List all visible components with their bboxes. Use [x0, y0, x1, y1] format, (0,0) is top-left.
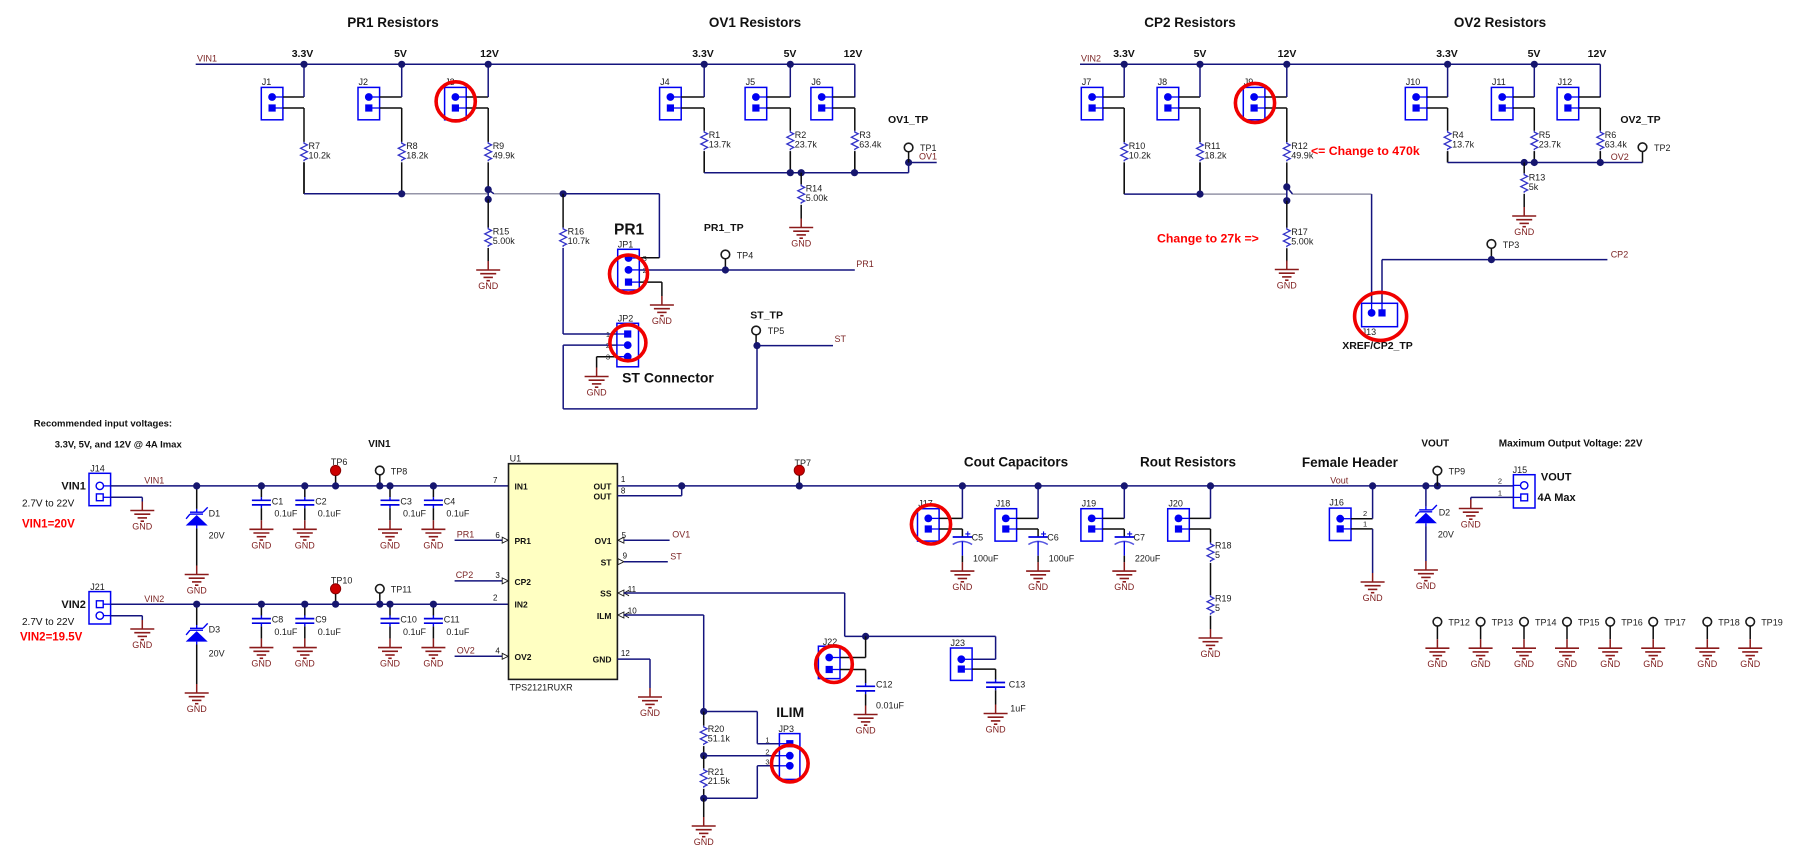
- wire C4 lower lead: [432, 508, 434, 520]
- wire C8 lead: [260, 604, 262, 615]
- svg-text:GND: GND: [856, 726, 877, 736]
- svg-text:IN2: IN2: [515, 599, 529, 609]
- junction TP4: [722, 266, 729, 273]
- testpoint TP2: [1638, 143, 1670, 153]
- ground under R15: [476, 261, 500, 291]
- wire PR1 stub: [455, 537, 509, 543]
- wire C9 lower lead: [304, 626, 306, 638]
- svg-text:3.3V: 3.3V: [692, 48, 714, 60]
- svg-text:R13: R13: [1529, 172, 1546, 182]
- ground under TP12: [1425, 639, 1449, 669]
- net label OV2 stub: [457, 646, 475, 656]
- svg-text:12V: 12V: [1588, 48, 1607, 60]
- wire C2 lower lead: [304, 508, 306, 520]
- note VIN2=19.5V: [20, 632, 83, 644]
- svg-text:1uF: 1uF: [1010, 704, 1026, 714]
- svg-text:ST: ST: [601, 557, 613, 567]
- svg-text:GND: GND: [1028, 582, 1049, 592]
- ground under D1: [185, 566, 209, 596]
- svg-text:OV1: OV1: [594, 536, 611, 546]
- svg-text:GND: GND: [1643, 659, 1664, 669]
- svg-text:GND: GND: [251, 659, 272, 669]
- svg-text:TP14: TP14: [1535, 618, 1557, 628]
- svg-text:Rout Resistors: Rout Resistors: [1140, 455, 1236, 470]
- svg-text:R2: R2: [795, 130, 807, 140]
- zener D1: [186, 507, 225, 540]
- wire ST net: [757, 345, 833, 347]
- svg-text:GND: GND: [251, 540, 272, 550]
- svg-text:OV1: OV1: [919, 152, 937, 162]
- node 5V tap label: [394, 48, 407, 60]
- ground under J16: [1361, 573, 1385, 603]
- svg-text:TP19: TP19: [1761, 618, 1783, 628]
- svg-text:GND: GND: [587, 388, 608, 398]
- resistor R19: [1207, 593, 1231, 629]
- svg-text:ILIM: ILIM: [776, 704, 804, 720]
- testpoint TP18: [1703, 618, 1740, 640]
- connector J6: [811, 77, 833, 120]
- svg-text:C11: C11: [444, 615, 460, 625]
- connector J17: [918, 499, 940, 541]
- svg-text:9: 9: [623, 552, 628, 561]
- label VIN1 range: [22, 499, 75, 510]
- svg-text:OV2: OV2: [457, 646, 475, 656]
- svg-text:TP2: TP2: [1654, 143, 1671, 153]
- resistor R6: [1597, 130, 1627, 150]
- resistor R17: [1283, 201, 1313, 262]
- svg-text:GND: GND: [640, 708, 661, 718]
- capacitor C11: [424, 615, 470, 637]
- svg-text:J12: J12: [1558, 77, 1573, 87]
- node 3.3V tap label: [1436, 48, 1458, 60]
- wire PR1 net: [639, 269, 855, 271]
- svg-text:PR1: PR1: [515, 536, 532, 546]
- pin numbers J15: [1498, 476, 1502, 497]
- svg-text:OUT: OUT: [594, 492, 613, 502]
- svg-text:GND: GND: [295, 659, 316, 669]
- wire C4 lead: [432, 486, 434, 497]
- connector J7: [1081, 77, 1103, 120]
- ground under C9: [293, 639, 317, 669]
- connector J14: [89, 464, 111, 506]
- svg-text:R10: R10: [1129, 141, 1146, 151]
- svg-text:J18: J18: [996, 499, 1011, 509]
- svg-text:J7: J7: [1082, 77, 1092, 87]
- svg-text:OV1: OV1: [672, 530, 690, 540]
- wire JP2 pin1 from R16: [563, 333, 617, 335]
- net label VIN2: [1081, 54, 1101, 64]
- ground under TP14: [1512, 639, 1536, 669]
- wire J7 stubs: [1103, 64, 1124, 142]
- wire C3 lower lead: [389, 508, 391, 520]
- svg-text:12V: 12V: [480, 48, 499, 60]
- svg-text:5.00k: 5.00k: [1291, 236, 1314, 246]
- svg-text:5V: 5V: [394, 48, 407, 60]
- svg-text:0.1uF: 0.1uF: [274, 509, 298, 519]
- wire OUT rail: [617, 485, 1513, 487]
- svg-text:OV2: OV2: [1611, 152, 1629, 162]
- svg-text:49.9k: 49.9k: [493, 150, 516, 160]
- svg-text:ST: ST: [835, 334, 847, 344]
- ground under C10: [378, 639, 402, 669]
- svg-text:+: +: [965, 530, 971, 541]
- svg-text:GND: GND: [1277, 281, 1298, 291]
- svg-text:D2: D2: [1439, 508, 1451, 518]
- svg-text:R18: R18: [1215, 541, 1232, 551]
- svg-text:0.01uF: 0.01uF: [876, 701, 905, 711]
- resistor R2: [787, 130, 817, 150]
- svg-text:GND: GND: [1471, 659, 1492, 669]
- connector J21: [89, 582, 111, 624]
- svg-text:C4: C4: [444, 496, 456, 506]
- connector J3: [445, 77, 467, 120]
- testpoint TP13: [1476, 618, 1513, 640]
- svg-text:TP8: TP8: [391, 467, 408, 477]
- svg-text:R5: R5: [1539, 130, 1551, 140]
- highlight circle J3: [436, 82, 475, 121]
- svg-text:12: 12: [621, 649, 630, 658]
- wire R12 bottom lead: [1286, 162, 1288, 187]
- wire D1 lower lead: [196, 528, 198, 565]
- wire C9 lead: [304, 604, 306, 615]
- capacitor C13: [986, 679, 1026, 713]
- connector J10: [1405, 77, 1427, 120]
- svg-text:5: 5: [1215, 603, 1220, 613]
- wire C6 lower lead: [1037, 556, 1039, 563]
- highlight circle JP3: [772, 745, 809, 782]
- svg-text:GND: GND: [380, 540, 401, 550]
- svg-text:GND: GND: [1697, 659, 1718, 669]
- svg-text:VIN2: VIN2: [61, 599, 85, 611]
- title OV1_TP: [888, 114, 928, 126]
- svg-text:Change to 27k =>: Change to 27k =>: [1157, 232, 1259, 246]
- wire D2 lower lead: [1425, 526, 1427, 561]
- connector J5: [745, 77, 767, 120]
- highlight circle J13: [1355, 292, 1407, 340]
- svg-text:R12: R12: [1291, 141, 1308, 151]
- testpoint TP1: [904, 143, 936, 163]
- wire ST pin9: [618, 559, 668, 565]
- title PR1_TP: [704, 222, 744, 234]
- wire JP2 pin2 net: [563, 345, 757, 409]
- svg-text:8: 8: [621, 487, 626, 496]
- wire CP2 resistor rail: [1124, 162, 1371, 303]
- svg-text:5.00k: 5.00k: [806, 193, 829, 203]
- wire J23 stubs: [972, 669, 996, 679]
- wire J16 stubs: [1351, 486, 1373, 573]
- wire J22 stubs: [840, 636, 866, 683]
- node 12V tap label: [1588, 48, 1607, 60]
- svg-text:C13: C13: [1009, 680, 1026, 690]
- wire R6 bottom lead: [1599, 151, 1601, 162]
- testpoint TP10: [331, 576, 353, 605]
- wire J12 stubs: [1579, 97, 1601, 131]
- wire C10 lower lead: [389, 626, 391, 638]
- svg-text:Cout Capacitors: Cout Capacitors: [964, 455, 1068, 470]
- svg-text:18.2k: 18.2k: [406, 150, 429, 160]
- wire C8 lower lead: [260, 626, 262, 638]
- svg-text:VIN2: VIN2: [1081, 54, 1101, 64]
- node 12V tap label: [844, 48, 863, 60]
- svg-text:GND: GND: [1114, 582, 1135, 592]
- svg-text:3: 3: [495, 571, 500, 580]
- capacitor C10: [381, 615, 427, 637]
- svg-text:5.00k: 5.00k: [493, 236, 516, 246]
- svg-text:12V: 12V: [844, 48, 863, 60]
- svg-text:TP9: TP9: [1449, 466, 1466, 476]
- svg-text:2: 2: [1363, 509, 1367, 518]
- wire JP3 pin2: [704, 755, 780, 757]
- svg-text:20V: 20V: [209, 531, 225, 541]
- resistor R7: [301, 141, 331, 161]
- wire C1 lower lead: [260, 508, 262, 520]
- svg-text:100uF: 100uF: [973, 554, 999, 564]
- net label CP2: [1611, 249, 1629, 259]
- wire C3 lead: [389, 486, 391, 497]
- svg-text:IN1: IN1: [515, 481, 529, 491]
- svg-text:GND: GND: [1600, 659, 1621, 669]
- section title OV1 Resistors: [709, 15, 801, 30]
- connector J1: [261, 77, 283, 120]
- connector J18: [995, 499, 1017, 541]
- svg-text:<= Change to 470k: <= Change to 470k: [1311, 144, 1420, 158]
- svg-text:TP18: TP18: [1718, 618, 1740, 628]
- wire R1 bottom lead: [703, 151, 705, 173]
- label VIN1 conn: [61, 481, 85, 493]
- note change to 470k: [1311, 144, 1420, 158]
- svg-text:10.2k: 10.2k: [309, 150, 332, 160]
- wire VIN1 rail: [111, 485, 509, 487]
- node 12V tap label: [480, 48, 499, 60]
- title OV2_TP: [1620, 114, 1660, 126]
- ground under C12: [854, 706, 878, 736]
- svg-text:63.4k: 63.4k: [1605, 139, 1628, 149]
- capacitor C6: [1028, 530, 1074, 564]
- wire J19 stubs: [1103, 486, 1125, 537]
- wire J11 stubs: [1513, 64, 1534, 131]
- capacitor C8: [252, 615, 298, 637]
- svg-text:D1: D1: [209, 509, 221, 519]
- wire OV1 pin5: [618, 537, 670, 543]
- ground under C13: [984, 705, 1008, 735]
- testpoint TP8: [376, 466, 408, 486]
- svg-text:TP17: TP17: [1664, 618, 1686, 628]
- svg-text:3.3V: 3.3V: [292, 48, 314, 60]
- highlight circle J22: [816, 646, 853, 683]
- resistor R12: [1283, 141, 1313, 161]
- svg-text:JP1: JP1: [618, 239, 634, 249]
- wire VIN1 top rail: [196, 64, 855, 97]
- svg-text:GND: GND: [1416, 581, 1437, 591]
- testpoint TP17: [1649, 618, 1686, 640]
- svg-text:U1: U1: [510, 454, 522, 464]
- svg-text:GND: GND: [132, 640, 153, 650]
- wire J15 pin1 gnd: [1471, 497, 1514, 499]
- svg-text:2.7V to 22V: 2.7V to 22V: [22, 617, 75, 628]
- svg-text:C5: C5: [972, 533, 984, 543]
- svg-text:2.7V to 22V: 2.7V to 22V: [22, 499, 75, 510]
- svg-text:VIN1: VIN1: [368, 439, 391, 450]
- wire JP3 pin3: [704, 766, 780, 799]
- svg-text:1: 1: [621, 475, 626, 484]
- svg-text:GND: GND: [986, 725, 1007, 735]
- svg-text:R9: R9: [493, 141, 505, 151]
- svg-text:220uF: 220uF: [1135, 554, 1161, 564]
- svg-text:J15: J15: [1513, 465, 1528, 475]
- net label VIN1 wire: [144, 476, 164, 486]
- node 5V tap label: [1194, 48, 1207, 60]
- svg-text:63.4k: 63.4k: [859, 139, 882, 149]
- ground under C4: [421, 520, 445, 550]
- wire R2 bottom lead: [789, 151, 791, 173]
- svg-text:OV2: OV2: [515, 652, 532, 662]
- resistor R14: [798, 173, 828, 219]
- title Cout Capacitors: [964, 455, 1068, 470]
- wire J10 stubs: [1427, 64, 1448, 131]
- wire J21 pin2 gnd: [111, 616, 143, 620]
- svg-text:+: +: [1041, 530, 1047, 541]
- svg-text:R3: R3: [859, 130, 871, 140]
- label VIN2 range: [22, 617, 75, 628]
- wire R10 bottom lead: [1123, 162, 1125, 194]
- svg-text:PR1: PR1: [457, 530, 475, 540]
- svg-text:J14: J14: [90, 464, 105, 474]
- svg-text:VIN2=19.5V: VIN2=19.5V: [20, 632, 83, 644]
- svg-text:5k: 5k: [1529, 182, 1539, 192]
- svg-text:4A Max: 4A Max: [1538, 492, 1577, 504]
- svg-text:GND: GND: [1557, 659, 1578, 669]
- svg-text:GND: GND: [1427, 659, 1448, 669]
- svg-text:D3: D3: [209, 625, 221, 635]
- svg-text:12V: 12V: [1278, 48, 1297, 60]
- ground under TP18: [1695, 639, 1719, 669]
- op-amp U1 TPS2121RUXR: [493, 454, 637, 693]
- ground under R19: [1199, 629, 1223, 659]
- wire OUT pin8 loop: [617, 486, 681, 496]
- net label ST: [835, 334, 847, 344]
- note recommended input: [34, 419, 172, 430]
- junctions top rails: [300, 61, 1538, 68]
- ground under J14: [130, 502, 154, 532]
- net label ST pin9: [670, 552, 682, 562]
- net label OV2: [1611, 152, 1629, 162]
- svg-text:GND: GND: [423, 540, 444, 550]
- svg-text:J10: J10: [1406, 77, 1421, 87]
- ground under TP17: [1641, 639, 1665, 669]
- connector J19: [1081, 499, 1103, 541]
- resistor R18: [1207, 541, 1231, 596]
- net label VIN2 wire: [144, 594, 164, 604]
- resistor R3: [851, 130, 881, 150]
- capacitor C1: [252, 496, 298, 518]
- node 5V tap label: [1528, 48, 1541, 60]
- svg-text:C9: C9: [315, 615, 327, 625]
- svg-text:R8: R8: [406, 141, 418, 151]
- net label OV1 pin5: [672, 530, 690, 540]
- node 3.3V tap label: [692, 48, 714, 60]
- svg-text:R4: R4: [1452, 130, 1464, 140]
- svg-text:J23: J23: [951, 638, 966, 648]
- junctions OV1 rail: [787, 159, 913, 176]
- svg-text:TP15: TP15: [1578, 618, 1600, 628]
- svg-text:J5: J5: [746, 77, 756, 87]
- svg-text:3.3V: 3.3V: [1113, 48, 1135, 60]
- svg-text:J6: J6: [811, 77, 821, 87]
- wire J9 stubs: [1265, 64, 1287, 142]
- svg-text:Maximum Output Voltage: 22V: Maximum Output Voltage: 22V: [1499, 439, 1643, 450]
- svg-text:+: +: [1127, 530, 1133, 541]
- resistor R9: [485, 141, 515, 161]
- ground under R14: [789, 219, 813, 249]
- node 12V tap label: [1278, 48, 1297, 60]
- wire R4 bottom lead: [1447, 151, 1449, 162]
- svg-text:TP5: TP5: [768, 326, 785, 336]
- ground under C2: [293, 520, 317, 550]
- svg-text:23.7k: 23.7k: [795, 139, 818, 149]
- connector J8: [1157, 77, 1179, 120]
- junction R21 bottom: [700, 795, 707, 802]
- svg-text:CP2: CP2: [456, 570, 474, 580]
- svg-text:5V: 5V: [1528, 48, 1541, 60]
- svg-text:J16: J16: [1329, 498, 1344, 508]
- net label Vout: [1330, 476, 1349, 486]
- wire SS pin11: [618, 590, 996, 659]
- svg-text:23.7k: 23.7k: [1539, 139, 1562, 149]
- svg-text:GND: GND: [1514, 227, 1535, 237]
- svg-text:0.1uF: 0.1uF: [403, 627, 427, 637]
- junctions VIN2 rail: [193, 601, 437, 608]
- testpoint TP7: [794, 458, 811, 486]
- svg-text:C7: C7: [1134, 533, 1146, 543]
- svg-text:C1: C1: [272, 496, 284, 506]
- connector J23: [951, 638, 973, 681]
- svg-text:TP11: TP11: [391, 585, 412, 595]
- svg-text:GND: GND: [132, 522, 153, 532]
- svg-text:OUT: OUT: [594, 481, 613, 491]
- resistor R5: [1531, 130, 1561, 150]
- wire R9 bottom lead: [487, 162, 489, 189]
- svg-text:GND: GND: [295, 540, 316, 550]
- node 3.3V tap label: [1113, 48, 1135, 60]
- svg-text:J4: J4: [660, 77, 670, 87]
- wire PR1 resistor rail: [304, 142, 659, 258]
- svg-text:OV1 Resistors: OV1 Resistors: [709, 15, 801, 30]
- svg-text:0.1uF: 0.1uF: [403, 509, 427, 519]
- svg-text:VOUT: VOUT: [1541, 471, 1572, 483]
- capacitor C5: [953, 530, 999, 564]
- title XREF/CP2_TP: [1342, 340, 1413, 352]
- svg-text:13.7k: 13.7k: [1452, 139, 1475, 149]
- connector J4: [660, 77, 682, 120]
- svg-text:10.2k: 10.2k: [1129, 151, 1152, 161]
- svg-text:2: 2: [1498, 476, 1502, 485]
- svg-text:GND: GND: [187, 704, 208, 714]
- wire JP1 pin1 to gnd: [639, 282, 662, 296]
- section title OV2 Resistors: [1454, 15, 1546, 30]
- svg-text:GND: GND: [1201, 649, 1222, 659]
- svg-text:GND: GND: [187, 586, 208, 596]
- ground under C7: [1112, 562, 1136, 592]
- svg-text:Vout: Vout: [1330, 476, 1349, 486]
- junctions PR1 rail: [398, 186, 567, 203]
- resistor R1: [701, 130, 731, 150]
- wire C2 lead: [304, 486, 306, 497]
- svg-text:TPS2121RUXR: TPS2121RUXR: [510, 683, 574, 693]
- ground under U1: [638, 688, 662, 718]
- svg-text:1: 1: [765, 736, 769, 745]
- svg-text:TP13: TP13: [1492, 618, 1514, 628]
- svg-text:ST_TP: ST_TP: [750, 310, 783, 322]
